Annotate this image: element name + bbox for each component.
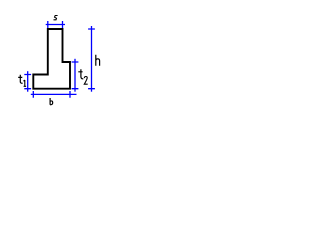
dimension h: ticks <box>88 29 95 89</box>
dimension s: ticks <box>48 21 63 28</box>
label t1: subscript 1 <box>24 80 27 86</box>
dimension t2: ticks <box>72 62 79 89</box>
label b <box>50 98 53 105</box>
profile outline (T-section) <box>33 29 70 89</box>
dimension h: line <box>91 26 93 92</box>
dimension t1: line <box>27 71 29 92</box>
label t1: t <box>18 75 22 83</box>
dimension s: line <box>46 24 65 26</box>
label t2: t <box>78 69 83 79</box>
dimension b: ticks <box>33 91 70 98</box>
label s <box>54 16 58 20</box>
dimension b: line <box>31 93 77 95</box>
dimension t1: ticks <box>24 75 31 89</box>
label h <box>96 55 100 66</box>
label t2: subscript 2 <box>84 76 87 84</box>
dimension t2: line <box>74 59 76 92</box>
